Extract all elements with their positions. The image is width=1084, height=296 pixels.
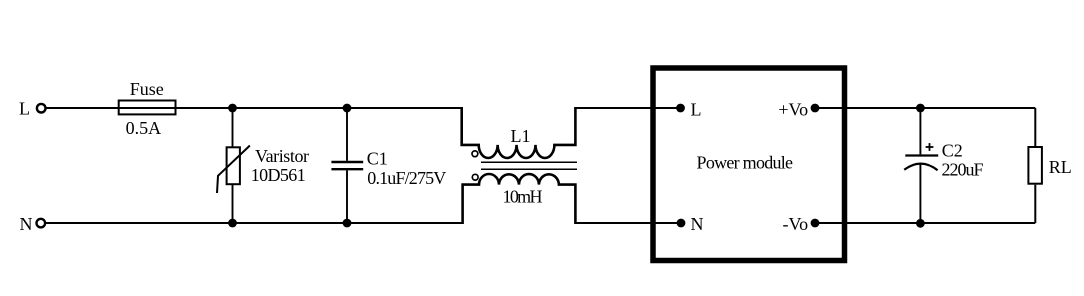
svg-text:RL: RL	[1049, 157, 1072, 177]
svg-text:10D561: 10D561	[251, 165, 306, 185]
svg-text:N: N	[20, 214, 33, 234]
svg-text:0.5A: 0.5A	[126, 118, 162, 138]
svg-text:+Vo: +Vo	[778, 99, 808, 119]
svg-text:Varistor: Varistor	[255, 146, 309, 166]
svg-text:Power module: Power module	[697, 152, 794, 172]
svg-text:L: L	[691, 99, 702, 119]
svg-text:C2: C2	[942, 140, 963, 160]
svg-text:Fuse: Fuse	[130, 79, 164, 99]
svg-text:10mH: 10mH	[503, 187, 543, 207]
svg-text:0.1uF/275V: 0.1uF/275V	[367, 168, 446, 188]
svg-text:C1: C1	[367, 148, 388, 168]
svg-text:N: N	[691, 214, 704, 234]
svg-text:220uF: 220uF	[942, 159, 984, 179]
svg-text:L: L	[19, 99, 30, 119]
svg-text:-Vo: -Vo	[783, 214, 809, 234]
svg-text:L1: L1	[511, 126, 531, 146]
